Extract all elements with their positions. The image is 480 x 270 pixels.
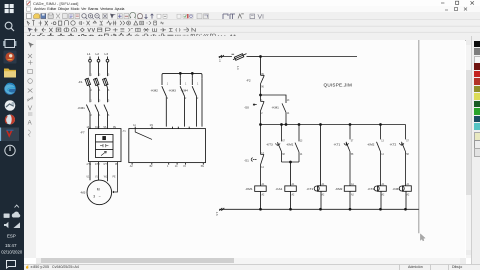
horizontal scrollbar bbox=[36, 258, 466, 264]
svg-text:B2: B2 bbox=[150, 166, 154, 168]
svg-text:A2: A2 bbox=[130, 165, 134, 168]
schematic text labels bbox=[78, 52, 411, 216]
svg-text:3: 3 bbox=[99, 101, 101, 103]
action center bbox=[7, 261, 16, 269]
svg-text:6: 6 bbox=[108, 90, 110, 92]
svg-text:-KM2: -KM2 bbox=[367, 142, 375, 146]
svg-text:1: 1 bbox=[197, 84, 199, 86]
branch3 wire bbox=[320, 125, 322, 186]
svg-text:13: 13 bbox=[300, 141, 303, 143]
timed contact KT branch2a bbox=[276, 125, 282, 163]
dark circle app icon bbox=[5, 145, 15, 155]
svg-text:15:47: 15:47 bbox=[5, 243, 17, 248]
motor labels bbox=[80, 177, 116, 199]
svg-text:2: 2 bbox=[91, 90, 93, 92]
tray icons row1 bbox=[4, 212, 21, 218]
red-white app icon bbox=[5, 115, 15, 125]
svg-text:1: 1 bbox=[185, 84, 187, 86]
start button windows logo bbox=[5, 4, 14, 13]
svg-text:-KM1: -KM1 bbox=[272, 106, 280, 110]
svg-text:5/L3: 5/L3 bbox=[104, 127, 109, 129]
svg-text:14: 14 bbox=[261, 167, 264, 169]
aux contact KM2 NO bbox=[377, 125, 381, 186]
thermal contact F2 NC bbox=[261, 75, 265, 95]
soft starter cell glyph arrow bbox=[101, 151, 106, 155]
svg-text:-KA1: -KA1 bbox=[276, 187, 283, 191]
edge browser icon bbox=[4, 83, 16, 95]
tray icons row2: volume + network bbox=[4, 222, 20, 228]
svg-text:96: 96 bbox=[261, 87, 264, 89]
bypass labels bbox=[151, 84, 200, 101]
svg-text:PE: PE bbox=[115, 164, 119, 166]
node L3 supply terminal bbox=[106, 57, 109, 77]
svg-text:-KM3: -KM3 bbox=[393, 187, 401, 191]
svg-text:A2: A2 bbox=[292, 193, 296, 196]
timed contact KT1 bbox=[344, 125, 350, 186]
wire bypass to block pin bbox=[201, 78, 203, 126]
coil KM1 bbox=[255, 186, 267, 210]
svg-text:5: 5 bbox=[108, 101, 110, 103]
svg-text:2/T1: 2/T1 bbox=[87, 164, 92, 166]
rotated wire tags bbox=[215, 59, 239, 216]
svg-text:1: 1 bbox=[91, 75, 93, 77]
bypass feeder rail bbox=[162, 73, 202, 78]
svg-text:-KM2: -KM2 bbox=[335, 187, 343, 191]
svg-text:A2: A2 bbox=[407, 193, 411, 196]
svg-text:14: 14 bbox=[175, 166, 178, 168]
svg-text:2: 2 bbox=[91, 115, 93, 117]
block pin labels top bbox=[87, 75, 119, 167]
coil KM2 bbox=[344, 186, 356, 210]
white app icon bbox=[5, 100, 16, 111]
svg-text:-KM3: -KM3 bbox=[169, 89, 177, 93]
white canvas bbox=[36, 40, 465, 258]
svg-text:~: ~ bbox=[99, 195, 101, 199]
svg-text:14: 14 bbox=[300, 154, 303, 156]
svg-text:-F2: -F2 bbox=[246, 79, 251, 83]
right color palette bbox=[471, 36, 480, 270]
svg-text:4: 4 bbox=[99, 90, 101, 92]
svg-text:3/L2: 3/L2 bbox=[95, 127, 100, 129]
contactor KM1 pole 1 bbox=[86, 105, 90, 129]
motor M3 bbox=[87, 180, 112, 205]
svg-text:-M3: -M3 bbox=[80, 190, 86, 194]
control labels bbox=[244, 79, 400, 191]
svg-text:6: 6 bbox=[108, 115, 110, 117]
row4: wide symbol buttons bbox=[27, 33, 236, 37]
svg-text:A2: A2 bbox=[351, 193, 355, 196]
svg-text:A2: A2 bbox=[322, 193, 326, 196]
branch2 join wire bbox=[282, 161, 300, 186]
node branch KM1 parallel bbox=[260, 94, 286, 101]
svg-text:QUISPE.JIM: QUISPE.JIM bbox=[324, 83, 353, 88]
row3: more icons bbox=[28, 28, 196, 33]
contactor KM3 contact bbox=[180, 78, 184, 126]
start button S1 bbox=[251, 125, 264, 186]
svg-text:-KT2: -KT2 bbox=[368, 187, 375, 191]
control top rail bbox=[260, 56, 357, 58]
svg-text:-KT2: -KT2 bbox=[390, 142, 397, 146]
svg-text:3: 3 bbox=[99, 75, 101, 77]
window buttons bbox=[441, 1, 474, 4]
row2: component icons bbox=[27, 20, 164, 25]
svg-text:15: 15 bbox=[183, 166, 186, 168]
svg-text:-KM1: -KM1 bbox=[286, 143, 294, 147]
svg-text:2: 2 bbox=[261, 113, 263, 115]
svg-text:-KT1: -KT1 bbox=[307, 187, 314, 191]
svg-text:1: 1 bbox=[167, 84, 169, 86]
coil KM3 bbox=[399, 186, 411, 210]
svg-text:-KT1: -KT1 bbox=[334, 142, 341, 146]
app icon in title bbox=[27, 1, 31, 5]
control fuse F3 bbox=[232, 54, 261, 61]
svg-text:-S1: -S1 bbox=[244, 159, 249, 163]
left tool strip bbox=[24, 40, 37, 258]
coil KT1 timer bbox=[314, 186, 326, 210]
svg-text:58: 58 bbox=[406, 154, 409, 156]
soft starter cell glyph thermal bbox=[103, 137, 106, 140]
svg-text:58: 58 bbox=[351, 154, 354, 156]
stop button S0 bbox=[253, 95, 264, 125]
control bottom rail bbox=[219, 208, 419, 210]
svg-text:M1: M1 bbox=[150, 125, 154, 127]
svg-text:2: 2 bbox=[167, 98, 169, 100]
svg-text:4: 4 bbox=[99, 115, 101, 117]
svg-text:57: 57 bbox=[351, 140, 354, 142]
svg-text:4/T2: 4/T2 bbox=[95, 164, 100, 166]
menu row icon bbox=[27, 7, 31, 11]
svg-text:3: 3 bbox=[93, 195, 95, 199]
contactor KM2 contact bbox=[162, 78, 167, 127]
coil KT2 timer bbox=[374, 186, 386, 210]
svg-text:-KM1: -KM1 bbox=[78, 106, 86, 110]
search icon bbox=[5, 22, 14, 31]
app icon red/orange bbox=[4, 51, 17, 64]
svg-text:PE: PE bbox=[113, 127, 117, 129]
latch contact KM1 aux bbox=[282, 101, 286, 125]
node L2 supply terminal bbox=[97, 57, 100, 77]
row1: standard file icons bbox=[27, 12, 263, 19]
svg-text:PE: PE bbox=[113, 177, 117, 179]
tray chevron bbox=[15, 205, 19, 207]
svg-text:A1: A1 bbox=[133, 124, 137, 127]
svg-text:02/10/2020: 02/10/2020 bbox=[1, 250, 23, 255]
PE wire to motor bbox=[113, 162, 118, 193]
svg-text:A: A bbox=[28, 121, 32, 127]
svg-text:1-N: 1-N bbox=[215, 212, 218, 216]
svg-text:67: 67 bbox=[282, 141, 285, 143]
svg-text:L1: L1 bbox=[87, 52, 91, 56]
svg-text:1: 1 bbox=[167, 166, 169, 168]
vertical scrollbar bbox=[466, 40, 472, 258]
node junction bypass 3 bbox=[191, 72, 193, 78]
menu bar bbox=[24, 6, 480, 12]
node L1 supply terminal bbox=[89, 57, 92, 77]
soft starter block F2 outer bbox=[89, 129, 122, 162]
svg-text:14: 14 bbox=[287, 113, 290, 115]
SIFU block labels bbox=[122, 124, 204, 168]
svg-text:V1: V1 bbox=[95, 177, 99, 179]
fuse-disconnector F1 pole 3 bbox=[103, 78, 108, 102]
label L1 L2 L3 bbox=[87, 52, 108, 56]
svg-text:L2: L2 bbox=[96, 52, 100, 56]
soft starter inner box bbox=[96, 135, 114, 158]
drawn wire under cursor bbox=[418, 40, 420, 233]
small strip above canvas under toolbars bbox=[24, 36, 480, 40]
control L1 tag bbox=[219, 55, 232, 58]
windows taskbar bbox=[0, 0, 24, 270]
main control drop wire bbox=[260, 57, 262, 76]
svg-text:-F1: -F1 bbox=[78, 80, 83, 84]
file explorer folder icon bbox=[4, 69, 16, 78]
SIFU internal switch bbox=[135, 129, 152, 140]
svg-text:2: 2 bbox=[185, 98, 187, 100]
active app highlight: cade_simu bbox=[0, 128, 19, 142]
svg-text:5: 5 bbox=[108, 75, 110, 77]
toolbar separators bbox=[24, 20, 480, 33]
control terminal numbers bbox=[261, 74, 410, 196]
control mid rail bbox=[260, 124, 406, 126]
svg-text:13: 13 bbox=[287, 100, 290, 102]
app title bar bbox=[24, 0, 480, 6]
status bar bbox=[24, 264, 480, 270]
svg-text:M: M bbox=[97, 187, 100, 191]
motor feed wires U1 V1 W1 bbox=[90, 162, 108, 182]
svg-text:-KM1: -KM1 bbox=[245, 187, 253, 191]
svg-text:-F7: -F7 bbox=[80, 131, 85, 135]
svg-text:-T1: -T1 bbox=[122, 131, 126, 133]
svg-text:-KT3: -KT3 bbox=[266, 143, 273, 147]
svg-text:-S0: -S0 bbox=[244, 106, 249, 110]
node junction bypass 2 bbox=[179, 72, 181, 78]
mdi child buttons bbox=[445, 8, 467, 11]
contactor KM4 contact bbox=[192, 78, 196, 126]
svg-text:PE: PE bbox=[201, 166, 205, 168]
svg-text:2: 2 bbox=[197, 98, 199, 100]
svg-text:6/T3: 6/T3 bbox=[104, 164, 109, 166]
svg-text:A2: A2 bbox=[262, 193, 266, 196]
toolbars bbox=[24, 12, 480, 41]
scrollbar end arrows bbox=[36, 258, 41, 264]
contactor KM1 pole 3 bbox=[104, 105, 108, 129]
contactor KM1 pole 2 bbox=[95, 105, 99, 129]
N tag bbox=[219, 208, 224, 211]
task view icon bbox=[3, 40, 16, 48]
svg-text:-KM2: -KM2 bbox=[151, 89, 159, 93]
svg-text:ESP: ESP bbox=[7, 234, 16, 239]
fuse-disconnector F1 pole 1 bbox=[85, 78, 90, 102]
fuse-disconnector F1 pole 2 bbox=[94, 78, 99, 102]
svg-text:14: 14 bbox=[381, 154, 384, 156]
svg-text:13: 13 bbox=[381, 140, 384, 142]
coil KA1 bbox=[285, 186, 297, 210]
SIFU module block bbox=[129, 127, 206, 165]
svg-text:57: 57 bbox=[406, 140, 409, 142]
timed contact KT2 bbox=[400, 125, 406, 186]
mouse cursor bbox=[420, 234, 425, 241]
svg-text:-KM4: -KM4 bbox=[181, 89, 189, 93]
svg-text:1-3: 1-3 bbox=[236, 66, 239, 70]
svg-text:1/L1: 1/L1 bbox=[87, 127, 92, 129]
svg-text:L1: L1 bbox=[218, 59, 221, 62]
svg-text:A2: A2 bbox=[382, 193, 386, 196]
soft starter cell glyph contact bbox=[100, 144, 108, 147]
svg-text:68: 68 bbox=[282, 154, 285, 156]
svg-text:L3: L3 bbox=[105, 52, 109, 56]
svg-text:1: 1 bbox=[91, 101, 93, 103]
aux contact branch2b bbox=[295, 125, 299, 163]
